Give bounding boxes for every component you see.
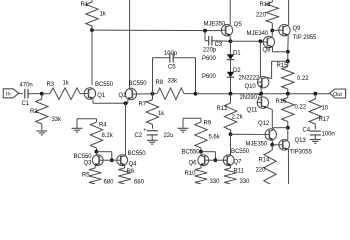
wire: Q9 collector down <box>287 36 289 52</box>
svg-text:0.22: 0.22 <box>297 76 309 82</box>
svg-text:R7: R7 <box>139 102 147 108</box>
wire: bias chain upper <box>230 41 232 54</box>
label Q3 type BC550 <box>74 154 93 160</box>
resistor R6 <box>118 165 130 184</box>
wire: Q3 collector tie <box>97 152 112 160</box>
label R12 <box>217 106 229 112</box>
svg-text:2N2907: 2N2907 <box>240 95 261 101</box>
svg-text:R4: R4 <box>99 122 107 128</box>
node Q3 collector junction <box>95 150 99 154</box>
transistor Q7 <box>223 155 234 166</box>
label C1 value 470n <box>20 83 33 89</box>
wire: node down to Q8 collector <box>271 31 273 37</box>
transistor Q8 <box>263 36 274 48</box>
label R3 value 1k <box>63 80 70 86</box>
resistor R1 <box>86 2 98 30</box>
wire: node to Q13 base <box>272 144 279 146</box>
svg-text:330: 330 <box>240 179 251 184</box>
capacitor C1 <box>25 89 28 99</box>
svg-text:P600: P600 <box>202 74 217 80</box>
svg-text:2N2222: 2N2222 <box>239 75 260 81</box>
label R10 value 330 <box>210 179 221 185</box>
capacitor C5 <box>170 53 173 63</box>
svg-text:R17: R17 <box>319 117 331 123</box>
wire: Q12 emitter up <box>272 128 274 130</box>
label C2 <box>135 133 143 139</box>
svg-text:R2: R2 <box>30 109 38 115</box>
label R2 <box>30 109 38 115</box>
svg-text:Q2: Q2 <box>119 93 128 99</box>
transistor Q11 <box>257 97 268 109</box>
label R9 <box>204 121 212 127</box>
wire: Q6 collector up <box>200 152 202 156</box>
label R10 <box>185 171 197 177</box>
label Q1 type BC550 <box>95 82 114 88</box>
wire: Q12 collector down <box>271 140 273 145</box>
svg-text:R5: R5 <box>82 173 90 179</box>
wire: R16 node to Q13 collector <box>287 128 289 141</box>
svg-text:1k: 1k <box>63 80 70 86</box>
node Q12 collector junction <box>270 143 274 147</box>
svg-text:1k: 1k <box>100 11 107 17</box>
node bias/rail junction <box>229 92 233 96</box>
svg-text:Q8: Q8 <box>263 48 272 54</box>
label R6 <box>127 169 135 175</box>
label Q9 type TIP2955 <box>293 35 318 41</box>
label C5 <box>168 65 176 71</box>
wire: C5 top left <box>153 57 170 59</box>
wire: Q2 emitter to tail rail <box>127 100 129 104</box>
svg-text:R15: R15 <box>277 63 289 69</box>
label R6 value 680 <box>134 179 145 185</box>
wire: Q3 collector up <box>96 152 98 156</box>
diode D2 P600 <box>227 72 234 77</box>
node C3 junction on base wire <box>203 29 207 33</box>
label R8 value 33k <box>168 78 179 84</box>
svg-text:Q10: Q10 <box>245 84 257 90</box>
wire: Q6 collector tie <box>201 152 215 160</box>
transistor Q10 <box>258 77 269 89</box>
label C1 <box>22 101 30 107</box>
node mirror2 base junction <box>214 158 218 162</box>
svg-text:P600: P600 <box>202 56 217 62</box>
capacitor C3 <box>209 36 212 46</box>
svg-text:R14: R14 <box>259 158 271 164</box>
label D1 value P600 <box>202 56 217 62</box>
svg-text:R13: R13 <box>260 2 272 8</box>
label C3 <box>215 42 223 48</box>
label R8 <box>156 80 164 86</box>
wire: C2 to ground <box>151 135 153 140</box>
wire: Q11 collector link <box>267 107 272 127</box>
node tail junction <box>124 101 128 105</box>
transistor Q1 <box>84 88 95 100</box>
label R5 value 680 <box>104 179 115 185</box>
node R16 bottom junction <box>286 126 290 130</box>
label Q6 type BC550 <box>182 150 201 156</box>
port Out <box>330 89 346 98</box>
capacitor C4 <box>310 131 321 135</box>
label Q11 type 2N2907 <box>240 95 261 101</box>
wire: Q3 base to Q4 base <box>103 159 117 161</box>
wire: node A down to Q1 collector <box>91 30 93 85</box>
resistor R10 <box>195 165 207 184</box>
svg-text:MJE350: MJE350 <box>246 141 268 147</box>
svg-text:Q9: Q9 <box>293 26 302 32</box>
label R4 value 8.2k <box>102 133 114 139</box>
label R16 <box>276 99 288 105</box>
wire: +rail stub above R1 <box>91 0 93 2</box>
label Q9 <box>293 26 302 32</box>
svg-text:680: 680 <box>134 179 145 184</box>
svg-text:Q6: Q6 <box>189 160 198 166</box>
label R13 value 220 <box>256 12 267 18</box>
svg-text:0.22: 0.22 <box>295 104 307 110</box>
svg-text:BC550: BC550 <box>231 149 250 155</box>
svg-text:MJE350: MJE350 <box>204 21 226 27</box>
wire: Q5 emitter down <box>229 36 232 42</box>
label Q10 <box>245 84 257 90</box>
svg-text:Q4: Q4 <box>129 162 138 168</box>
svg-text:Q3: Q3 <box>84 161 93 167</box>
node Q8 base junction <box>259 39 263 43</box>
ground for R9 <box>178 128 189 132</box>
label D2 value P600 <box>202 74 217 80</box>
node Q8 emitter junction <box>286 50 290 54</box>
ground for R4 <box>72 128 83 132</box>
port In <box>3 89 18 98</box>
label D1 <box>233 51 241 57</box>
label Q1 <box>97 93 106 99</box>
wire: Q5 emitter node to Q8 base <box>231 40 264 42</box>
svg-text:2.2k: 2.2k <box>232 115 244 121</box>
svg-text:330: 330 <box>210 179 221 184</box>
svg-text:100p: 100p <box>164 51 178 57</box>
label R17 value 10 <box>322 106 329 112</box>
svg-text:22u: 22u <box>164 133 174 139</box>
label Q12 type MJE350 <box>246 141 268 147</box>
svg-text:R10: R10 <box>185 171 197 177</box>
label R15 <box>277 63 289 69</box>
resistor R17 <box>309 94 321 130</box>
svg-text:33k: 33k <box>168 78 179 84</box>
label Q11 <box>247 107 258 113</box>
label Q7 type BC550 <box>231 149 250 155</box>
svg-text:C2: C2 <box>135 133 143 139</box>
resistor R5 <box>89 165 101 184</box>
transistor Q9 <box>279 25 290 37</box>
wire: In to C1 <box>19 92 23 94</box>
svg-text:C1: C1 <box>22 101 30 107</box>
label C3 value 220p <box>203 47 217 53</box>
label R9 value 5.6k <box>209 135 221 141</box>
svg-text:TIP 2955: TIP 2955 <box>293 35 318 41</box>
node driver emitter junction <box>259 92 263 96</box>
svg-text:Q13: Q13 <box>295 138 307 144</box>
svg-text:D2: D2 <box>233 68 241 74</box>
svg-text:680: 680 <box>104 179 115 184</box>
wire: R12 node to Q12 base <box>231 133 266 135</box>
svg-text:Q11: Q11 <box>247 107 258 113</box>
svg-text:220p: 220p <box>203 47 217 53</box>
label Q13 <box>295 138 307 144</box>
ground for C2 <box>147 140 158 144</box>
wire: Q8 emitter link <box>273 47 288 52</box>
node Q5 emitter junction <box>229 39 233 43</box>
wire: R9 ground link <box>183 118 201 128</box>
resistor R3 <box>42 88 80 100</box>
svg-text:220: 220 <box>256 12 267 18</box>
label C4 value 100n <box>322 131 335 137</box>
wire: C4 to ground <box>314 135 316 139</box>
wire: R3 to Q1 base <box>80 93 84 95</box>
svg-text:Q1: Q1 <box>97 93 106 99</box>
resistor R12 <box>224 94 236 135</box>
transistor Q4 <box>117 155 128 166</box>
label R2 value 33k <box>52 117 63 123</box>
wire: Q13 emitter to -rail <box>287 149 289 184</box>
label R14 value 220 <box>256 168 267 174</box>
svg-text:R1: R1 <box>81 2 89 8</box>
svg-text:BC550: BC550 <box>129 81 148 87</box>
wire: C3 drop <box>205 31 209 41</box>
wire: C3 to Q5 emitter node <box>212 40 231 43</box>
label Q5 <box>234 22 243 28</box>
label D2 <box>233 68 241 74</box>
wire: Q8 base node down to Q10 <box>259 41 261 77</box>
svg-text:R11: R11 <box>234 169 245 175</box>
wire: node to Q9 base <box>272 29 278 31</box>
label Q5 type MJE350 <box>204 21 226 27</box>
svg-text:D1: D1 <box>233 51 241 57</box>
ground for R2 <box>36 131 47 135</box>
wire: Q9 collector chain <box>287 52 289 61</box>
wire: Q2 base to feedback node <box>137 93 153 95</box>
resistor R11 <box>224 165 236 184</box>
transistor Q12 <box>265 129 276 141</box>
wire: Q1 emitter to tail rail <box>93 99 128 103</box>
label Q10 type 2N2222 <box>239 75 260 81</box>
label Q7 <box>234 160 243 166</box>
node output junction <box>313 92 317 96</box>
svg-text:Q5: Q5 <box>234 22 243 28</box>
node input junction <box>40 92 44 96</box>
svg-text:BC550: BC550 <box>74 154 93 160</box>
node mirror base junction <box>110 158 114 162</box>
wire: R16 node left link <box>272 127 288 129</box>
label Q2 <box>119 93 128 99</box>
svg-text:Q7: Q7 <box>234 160 243 166</box>
label R5 <box>82 173 90 179</box>
label Q12 <box>258 121 270 127</box>
node feedback junction <box>151 92 155 96</box>
label R14 <box>259 158 271 164</box>
resistor R9 <box>195 118 207 151</box>
svg-text:R16: R16 <box>276 99 288 105</box>
transistor Q3 <box>92 155 103 166</box>
resistor R2 <box>36 94 48 131</box>
wire: Q10 emitter to output rail <box>260 88 262 93</box>
wire: tail down to Q4 collector <box>125 103 127 155</box>
svg-text:R8: R8 <box>156 80 164 86</box>
svg-text:100n: 100n <box>322 131 335 137</box>
label R1 <box>81 2 89 8</box>
svg-text:220: 220 <box>256 168 267 174</box>
label Q2 type BC550 <box>129 81 148 87</box>
wire: feedback rail to output <box>196 93 330 95</box>
svg-text:BC550: BC550 <box>128 151 147 157</box>
svg-text:33k: 33k <box>52 117 63 123</box>
resistor R8 <box>153 88 196 100</box>
label Q4 type BC550 <box>128 151 147 157</box>
label R15 value 0.22 <box>297 76 309 82</box>
wire: bias chain to rail <box>230 77 232 93</box>
wire: Q6 base to Q7 base <box>209 159 224 161</box>
label R11 value 330 <box>240 179 251 185</box>
label R12 value 2.2k <box>232 115 244 121</box>
node R8 right junction <box>194 92 198 96</box>
wire: R4 ground link <box>77 119 97 128</box>
label C2 value 22u <box>164 133 174 139</box>
svg-text:R9: R9 <box>204 121 212 127</box>
label R3 <box>47 82 55 88</box>
resistor R15 <box>282 61 294 92</box>
svg-text:Q12: Q12 <box>258 121 270 127</box>
svg-text:BC550: BC550 <box>182 150 201 156</box>
svg-text:C5: C5 <box>168 65 176 71</box>
svg-text:In: In <box>6 92 11 98</box>
label Q6 <box>189 160 198 166</box>
transistor Q5 <box>221 25 232 37</box>
wire: R12 node to Q7 collector <box>230 134 232 155</box>
ground for C4 <box>310 140 321 144</box>
label Q8 <box>263 48 272 54</box>
label C5 value 100p <box>164 51 178 57</box>
wire: C5 top right <box>173 57 195 59</box>
label Q4 <box>129 162 138 168</box>
wire: Q11 emitter to output rail <box>260 94 262 98</box>
label R13 <box>260 2 272 8</box>
transistor Q13 <box>279 140 290 151</box>
label R4 <box>99 122 107 128</box>
label R7 <box>139 102 147 108</box>
diode D1 P600 <box>227 54 234 59</box>
capacitor C2 22u electrolytic <box>143 127 157 135</box>
label R7 value 1k <box>158 111 165 117</box>
label C4 <box>303 128 311 134</box>
resistor R7 <box>146 94 158 125</box>
label R1 value 1k <box>100 11 107 17</box>
resistor R13 <box>266 0 278 31</box>
node R13/Q9 base junction <box>270 29 274 33</box>
svg-text:5.6k: 5.6k <box>209 135 221 141</box>
node R12 bottom junction <box>229 132 233 136</box>
resistor R16 <box>282 94 294 128</box>
wire: C5 branch left <box>152 58 154 94</box>
wire: Q10 collector link <box>267 61 288 78</box>
label Q13 type TIP3055 <box>290 150 313 156</box>
label Q8 type MJE340 <box>247 31 269 37</box>
transistor Q6 <box>198 155 209 166</box>
wire: bias chain middle <box>230 60 232 72</box>
svg-text:BC550: BC550 <box>95 82 114 88</box>
wire: Q5 collector to +rail <box>229 0 231 25</box>
node A junction R1/Q1 collector <box>90 28 94 32</box>
svg-text:MJE340: MJE340 <box>247 31 269 37</box>
wire: C5 branch right <box>195 58 197 94</box>
svg-text:R3: R3 <box>47 82 55 88</box>
wire: R7 to C2 <box>152 125 154 129</box>
node Q6 collector junction <box>199 150 203 154</box>
node Q10 collector junction <box>286 59 290 63</box>
transistor Q2 <box>125 88 136 100</box>
wire: Q9 emitter to +rail <box>288 0 290 25</box>
svg-text:C4: C4 <box>303 128 311 134</box>
svg-text:TIP3055: TIP3055 <box>290 150 313 156</box>
resistor R4 <box>90 119 102 152</box>
wire: node A to Q5 base <box>92 29 221 32</box>
label R17 <box>319 117 331 123</box>
label Q3 <box>84 161 93 167</box>
resistor R14 <box>264 145 276 184</box>
svg-text:470n: 470n <box>20 83 33 89</box>
svg-text:8.2k: 8.2k <box>102 133 114 139</box>
label R16 value 0.22 <box>295 104 307 110</box>
wire: +rail to Q2 collector <box>129 0 131 89</box>
label R11 <box>234 169 245 175</box>
node R15/output junction <box>286 92 290 96</box>
svg-text:1k: 1k <box>158 111 165 117</box>
svg-text:Out: Out <box>333 92 342 98</box>
svg-text:R12: R12 <box>217 106 229 112</box>
svg-text:10: 10 <box>322 106 329 112</box>
wire: C1 to input node <box>28 93 42 95</box>
svg-text:+: + <box>143 127 146 133</box>
svg-text:R6: R6 <box>127 169 135 175</box>
